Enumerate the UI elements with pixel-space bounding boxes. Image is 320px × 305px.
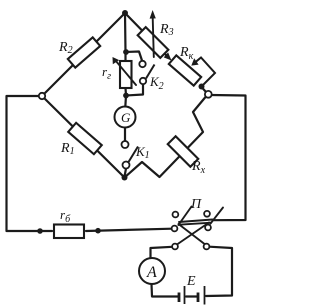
arrow tap from R3 wire onto RK xyxy=(164,52,172,60)
commutator right blade xyxy=(211,208,224,224)
commutator contact mid-left xyxy=(172,226,178,232)
wire apex to left vertex xyxy=(42,13,125,96)
svg-text:G: G xyxy=(121,110,131,125)
commutator contact top-left xyxy=(173,212,179,218)
svg-text:Rx: Rx xyxy=(191,159,206,176)
resistor Rx xyxy=(168,136,199,167)
node above r_g xyxy=(123,49,129,55)
resistor RK xyxy=(169,55,201,85)
wire apex to R3 branch xyxy=(125,13,167,56)
switch K1 blade xyxy=(129,147,139,163)
wire r_b to commutator xyxy=(86,229,172,231)
switch K1 contact xyxy=(123,162,130,169)
svg-text:E: E xyxy=(186,274,196,289)
switch K2 bottom contact xyxy=(140,78,146,84)
wire K1 bottom contact to bottom vertex xyxy=(125,169,126,176)
terminal right vertex xyxy=(205,91,212,98)
terminal below galvanometer xyxy=(122,141,129,148)
wire node to r_g top xyxy=(124,52,126,61)
wire galvanometer to terminal xyxy=(124,128,126,142)
resistor r_g xyxy=(120,61,132,88)
node apex xyxy=(122,10,128,16)
resistor R2 xyxy=(68,37,100,67)
arrow of rheostat R3 xyxy=(150,10,156,57)
svg-text:rг: rг xyxy=(102,64,111,82)
commutator cross wire left-down xyxy=(179,224,207,246)
commutator cross wire right-down xyxy=(176,223,210,246)
commutator left blade xyxy=(178,207,191,226)
resistor r_b xyxy=(54,225,84,239)
node left of r_b xyxy=(37,228,43,234)
battery E cells xyxy=(179,286,205,305)
commutator contact bottom-left xyxy=(172,244,178,250)
node bottom vertex xyxy=(122,175,128,181)
wire r_g bottom to lower node xyxy=(124,88,127,96)
svg-text:Rк: Rк xyxy=(179,45,194,62)
commutator bar upper xyxy=(179,220,212,223)
commutator contact top-right xyxy=(204,211,210,217)
wiper loop of rheostat RK xyxy=(191,58,215,87)
wire Rx branch right vertex to bottom vertex xyxy=(125,97,206,178)
svg-text:R2: R2 xyxy=(58,40,73,56)
wire left loop from left vertex down to r_b xyxy=(7,96,53,231)
switch K2 blade xyxy=(146,65,155,79)
wire node to K2 top contact xyxy=(126,52,142,61)
node right of r_b xyxy=(95,228,101,234)
commutator contact bottom-right xyxy=(204,244,210,250)
wire commutator bottom-left to ammeter xyxy=(151,247,173,258)
ammeter A xyxy=(139,258,165,284)
node right vertex xyxy=(199,84,205,90)
commutator bar lower xyxy=(179,223,211,225)
wire apex down to node above r_g xyxy=(124,13,127,52)
svg-text:rб: rб xyxy=(60,207,71,225)
wire R1 branch left vertex to bottom vertex xyxy=(42,96,125,178)
resistor R1 xyxy=(68,123,102,154)
galvanometer G xyxy=(115,107,136,128)
terminal left vertex xyxy=(39,93,45,99)
switch K2 top contact xyxy=(139,61,145,67)
wire lower node to galvanometer xyxy=(124,96,127,108)
node below r_g xyxy=(123,93,129,99)
wire battery to right riser xyxy=(206,247,232,296)
wire ammeter to battery xyxy=(152,284,179,297)
wire K2 bottom contact to lower node xyxy=(126,84,143,96)
wire between battery cells xyxy=(186,295,197,297)
wire right side down to commutator xyxy=(211,95,246,220)
wire right vertex link to terminal xyxy=(202,87,207,92)
arrow of rheostat r_g xyxy=(113,57,137,85)
commutator contact mid-right xyxy=(205,225,211,231)
svg-text:R1: R1 xyxy=(60,141,75,157)
svg-text:A: A xyxy=(146,264,157,281)
svg-text:R3: R3 xyxy=(159,22,174,38)
svg-text:K1: K1 xyxy=(135,144,150,161)
svg-text:K2: K2 xyxy=(149,74,164,92)
resistor R3 xyxy=(138,27,169,58)
svg-text:П: П xyxy=(190,197,202,212)
